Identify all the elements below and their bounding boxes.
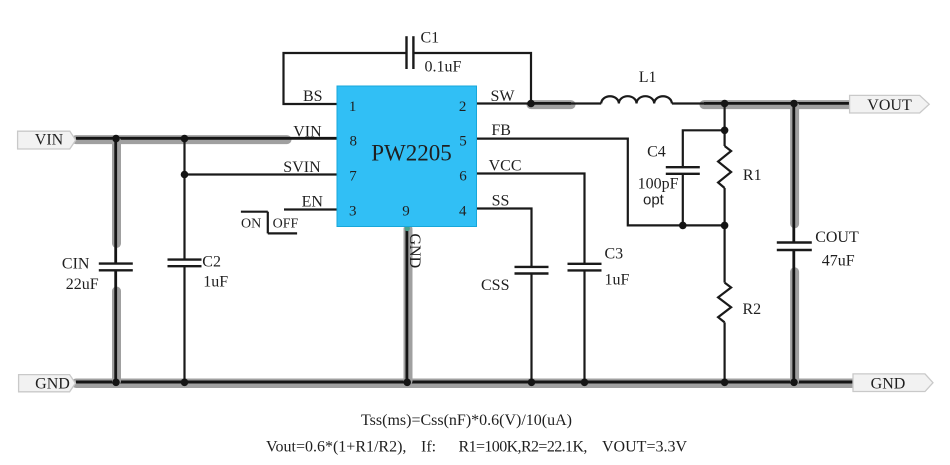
svg-text:5: 5 (459, 134, 467, 150)
svg-text:PW2205: PW2205 (371, 141, 452, 166)
svg-text:1uF: 1uF (605, 272, 630, 289)
node GND tag right (853, 374, 933, 393)
svg-text:VOUT: VOUT (867, 97, 912, 114)
svg-text:GND: GND (871, 376, 906, 393)
svg-text:C3: C3 (605, 246, 624, 263)
wire C3 bottom to GND (583, 270, 585, 383)
node GND tag left (19, 375, 76, 393)
svg-text:4: 4 (459, 204, 467, 220)
svg-text:1uF: 1uF (203, 274, 228, 291)
svg-text:47uF: 47uF (822, 253, 855, 270)
svg-text:VIN: VIN (35, 132, 64, 149)
node VIN tag (18, 131, 76, 149)
svg-text:EN: EN (302, 193, 324, 210)
wire VIN bus (thick) (76, 138, 337, 139)
svg-text:7: 7 (349, 169, 357, 185)
svg-text:COUT: COUT (815, 229, 859, 246)
op-amp U1 PW2205 IC body (337, 86, 477, 227)
node junction dots (112, 100, 798, 386)
svg-text:SW: SW (491, 88, 516, 105)
svg-text:22uF: 22uF (66, 276, 99, 293)
svg-text:VIN: VIN (293, 123, 322, 140)
wire VOUT bus (thick) (704, 103, 850, 104)
wire SW bus segment (thick) (531, 103, 571, 104)
wire GND bus (thick) (76, 382, 853, 383)
svg-text:GND: GND (35, 376, 70, 393)
svg-text:CSS: CSS (481, 277, 509, 294)
svg-text:3: 3 (349, 204, 357, 220)
svg-text:GND: GND (406, 234, 423, 269)
resistor R2 (718, 225, 761, 383)
svg-text:R2: R2 (743, 301, 762, 318)
svg-text:C2: C2 (202, 254, 221, 271)
wire IC pin9 GND vertical (thick) (405, 226, 410, 383)
wire C4 top link (683, 130, 725, 167)
svg-text:R1: R1 (743, 167, 762, 184)
svg-text:opt: opt (643, 192, 665, 209)
wire COUT vertical (thick) (789, 104, 799, 383)
svg-text:SS: SS (492, 192, 510, 209)
svg-text:SVIN: SVIN (283, 159, 321, 176)
svg-text:ON: ON (241, 216, 261, 231)
svg-text:Tss(ms)=Css(nF)*0.6(V)/10(uA): Tss(ms)=Css(nF)*0.6(V)/10(uA) (361, 412, 572, 429)
svg-text:1: 1 (349, 99, 357, 115)
wire BS loop to C1 (284, 53, 407, 104)
svg-text:0.1uF: 0.1uF (425, 59, 462, 76)
capacitor C4 (638, 143, 700, 208)
wire CIN vertical (thick) (111, 139, 121, 383)
wire SS to CSS (476, 209, 532, 267)
resistor R1 (718, 104, 761, 225)
switch ON/OFF (241, 212, 299, 234)
wire C2 branch vertical (183, 139, 185, 383)
wire inductor to VOUT bus (672, 102, 706, 104)
svg-text:6: 6 (459, 169, 467, 185)
wire C4 bottom link (682, 174, 684, 226)
svg-text:9: 9 (402, 204, 410, 220)
svg-text:VCC: VCC (489, 158, 522, 175)
node VOUT tag (850, 95, 930, 113)
inductor L1 (601, 69, 672, 104)
svg-text:CIN: CIN (62, 255, 90, 272)
svg-text:2: 2 (459, 99, 467, 115)
svg-text:C1: C1 (421, 30, 440, 47)
wire SW bus to inductor (569, 102, 601, 104)
svg-text:Vout=0.6*(1+R1/R2),If:R1=100K,: Vout=0.6*(1+R1/R2),If:R1=100K,R2=22.1K,V… (266, 439, 687, 456)
svg-text:BS: BS (303, 88, 323, 105)
capacitor C2 (168, 254, 229, 291)
svg-text:L1: L1 (639, 69, 657, 86)
wire EN (284, 208, 337, 210)
wire VCC to C3 (476, 174, 585, 264)
svg-text:8: 8 (349, 134, 357, 150)
capacitor CIN (62, 255, 133, 293)
svg-text:FB: FB (491, 122, 511, 139)
wire C1 right to SW corner (414, 53, 531, 104)
wire CSS bottom to GND (530, 274, 532, 384)
capacitor C3 (568, 246, 630, 289)
svg-text:OFF: OFF (273, 216, 299, 231)
capacitor COUT (777, 229, 859, 270)
svg-text:100pF: 100pF (638, 175, 679, 192)
capacitor C1 (407, 30, 462, 76)
wire SW pin to corner (476, 102, 531, 104)
svg-text:C4: C4 (647, 143, 666, 160)
wire SVIN (185, 173, 338, 175)
capacitor CSS (481, 267, 549, 294)
wire FB net (476, 139, 725, 226)
